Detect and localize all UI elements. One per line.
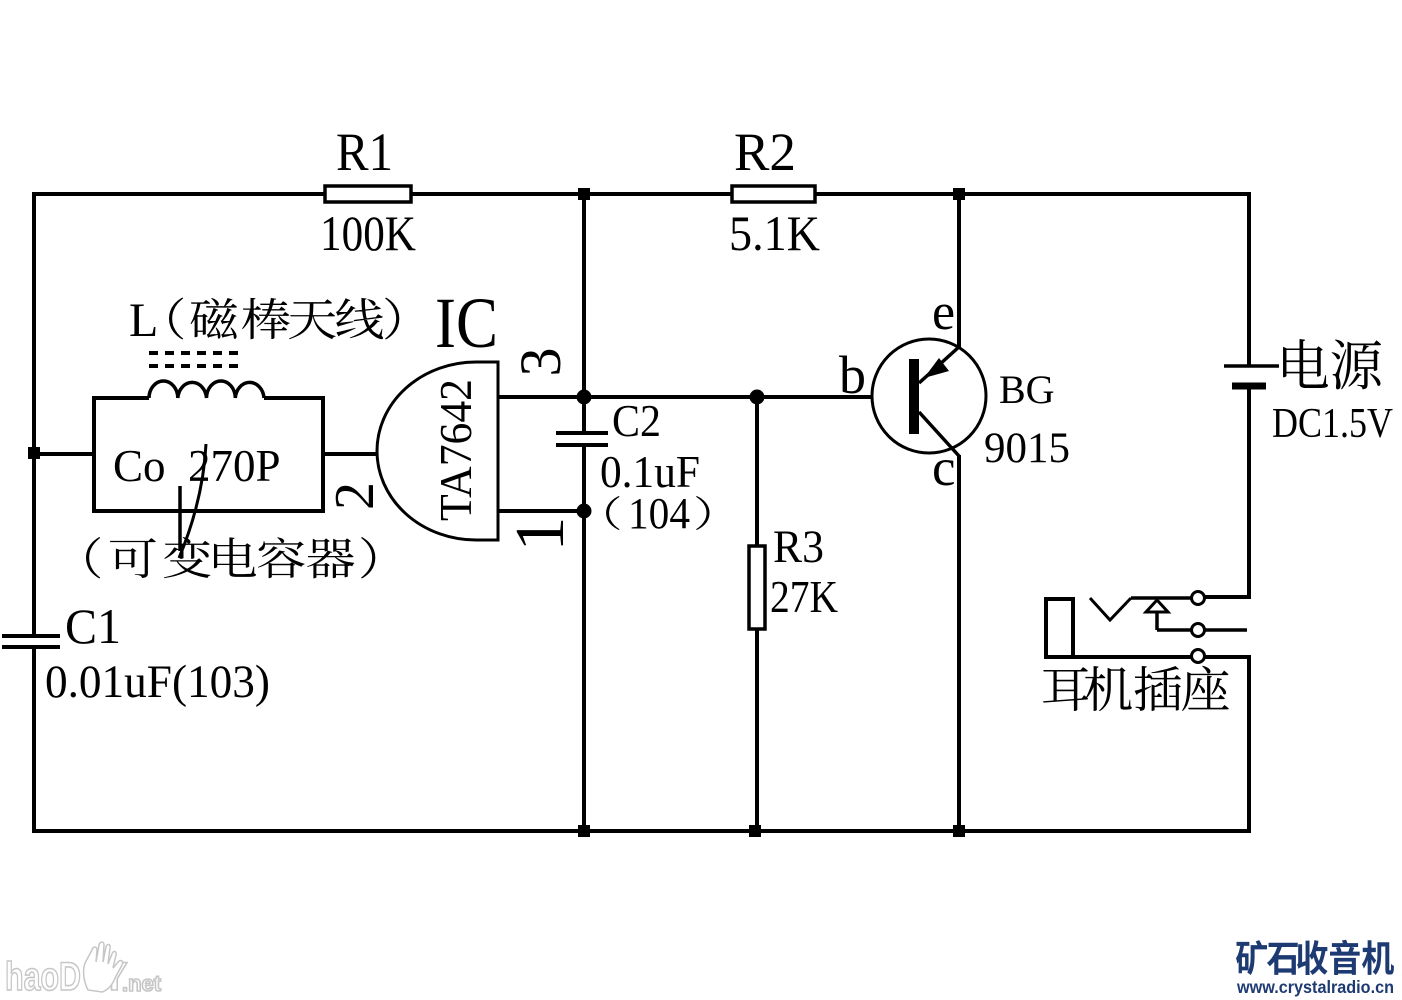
svg-text:DC1.5V: DC1.5V xyxy=(1272,401,1393,447)
wire pin2 right xyxy=(322,452,380,456)
svg-text:R1: R1 xyxy=(336,122,393,182)
resistor R1 xyxy=(325,186,411,202)
svg-text:TA7642: TA7642 xyxy=(431,379,481,521)
wire IC pin1 xyxy=(498,509,584,513)
svg-text:L: L xyxy=(129,294,158,347)
node junction at 959,831 xyxy=(953,825,965,837)
label power supply Chinese xyxy=(1283,339,1381,389)
label headphone jack Chinese xyxy=(1043,666,1229,711)
transistor collector line xyxy=(919,412,959,456)
wire battery to jack tip xyxy=(1204,595,1249,599)
jack switch wire horizontal xyxy=(1157,628,1192,632)
svg-text:IC: IC xyxy=(435,283,498,363)
transistor emitter arrow xyxy=(924,358,949,378)
antenna coupling dashed line 2 xyxy=(149,364,245,368)
svg-text:b: b xyxy=(839,345,866,405)
watermark hand icon xyxy=(84,942,123,992)
node junction at 755,831 xyxy=(749,825,761,837)
node junction at 584,397 xyxy=(577,390,592,405)
svg-text:R2: R2 xyxy=(734,122,796,182)
svg-text:.net: .net xyxy=(122,971,162,996)
wire transistor emitter vertical xyxy=(957,194,961,347)
wire center vertical lower xyxy=(582,446,586,831)
node junction at 584,831 xyxy=(578,825,590,837)
node junction at 959,194 xyxy=(953,188,965,200)
svg-text:1: 1 xyxy=(502,517,579,552)
wire jack sleeve line left xyxy=(1071,655,1192,659)
wire left rail upper xyxy=(32,192,36,634)
capacitor C2 plate bottom xyxy=(556,443,608,447)
battery positive plate xyxy=(1224,364,1279,368)
wire right jack vertical xyxy=(1247,656,1251,833)
jack tip line xyxy=(1131,596,1192,600)
wire battery bottom vertical xyxy=(1247,386,1251,599)
watermark crystalradio logo Chinese xyxy=(1236,940,1394,975)
inductor L coil xyxy=(149,381,264,398)
node junction at 757,397 xyxy=(750,390,765,405)
wire R3 bottom xyxy=(755,629,759,831)
svg-text:0.01uF(103): 0.01uF(103) xyxy=(45,656,270,708)
svg-text:2: 2 xyxy=(324,482,386,510)
svg-text:9015: 9015 xyxy=(984,425,1070,472)
wire IC pin3 to transistor base xyxy=(498,395,910,399)
capacitor C2 plate top xyxy=(556,431,608,435)
resistor R2 xyxy=(732,186,815,202)
svg-text:27K: 27K xyxy=(770,571,838,622)
variable capacitor arrow curve xyxy=(179,444,206,558)
capacitor C1 plate top xyxy=(2,634,60,638)
svg-text:C2: C2 xyxy=(612,395,661,446)
battery negative plate xyxy=(1232,383,1266,390)
jack terminal 2 xyxy=(1192,624,1205,637)
svg-text:3: 3 xyxy=(508,348,573,377)
node junction at 584,194 xyxy=(578,188,590,200)
jack terminal 3 xyxy=(1192,650,1205,663)
jack V notch xyxy=(1090,598,1131,620)
jack switch open wire xyxy=(1204,628,1247,632)
headphone jack plug body xyxy=(1046,599,1073,657)
transistor BG 9015 circle xyxy=(872,339,986,453)
wire R3 top xyxy=(755,397,759,546)
wire jack sleeve line right xyxy=(1204,655,1251,659)
wire center vertical upper xyxy=(582,194,586,433)
jack switch wire vertical xyxy=(1155,612,1159,630)
variable capacitor arrow line xyxy=(178,486,182,551)
svg-text:c: c xyxy=(932,439,956,497)
svg-text:BG: BG xyxy=(999,367,1055,412)
value (104) xyxy=(606,496,619,530)
watermark haoDIY.net text xyxy=(5,955,162,999)
wire left rail lower xyxy=(32,649,36,833)
resistor R3 xyxy=(749,546,765,629)
wire bottom rail xyxy=(32,829,1251,833)
wire top rail xyxy=(32,192,1251,196)
svg-text:5.1K: 5.1K xyxy=(729,205,820,261)
wire battery top vertical xyxy=(1247,192,1251,366)
svg-text:haoD: haoD xyxy=(5,955,81,999)
wire transistor collector vertical xyxy=(957,455,961,831)
node junction at 584,511 xyxy=(577,504,592,519)
antenna coupling dashed line 1 xyxy=(149,351,245,355)
svg-text:Co 270P: Co 270P xyxy=(113,441,281,491)
node junction at 34,453 xyxy=(28,447,40,459)
svg-text:100K: 100K xyxy=(320,205,416,261)
svg-text:104: 104 xyxy=(628,489,690,538)
jack terminal 1 xyxy=(1192,592,1205,605)
label antenna Chinese (ferrite rod antenna) xyxy=(169,298,399,340)
svg-text:www.crystalradio.cn: www.crystalradio.cn xyxy=(1236,977,1394,997)
transistor base bar xyxy=(909,359,919,434)
jack tip contact triangle xyxy=(1146,600,1168,612)
wire pin2 left xyxy=(34,452,94,456)
op-amp IC TA7642 body xyxy=(377,362,498,540)
label variable capacitor Chinese xyxy=(86,537,375,578)
node box Co tank circuit xyxy=(94,398,323,511)
capacitor C1 plate bottom xyxy=(2,645,60,649)
svg-text:R3: R3 xyxy=(773,521,824,573)
svg-text:C1: C1 xyxy=(65,598,121,654)
transistor emitter line xyxy=(919,346,960,383)
svg-text:e: e xyxy=(932,284,955,341)
